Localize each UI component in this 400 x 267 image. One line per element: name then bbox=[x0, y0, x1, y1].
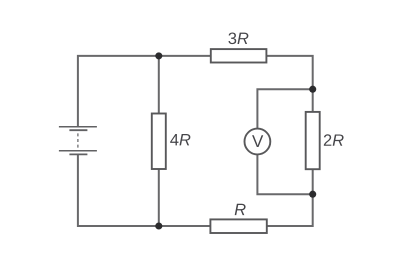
label 3R bbox=[228, 32, 248, 44]
node A (top junction) bbox=[155, 52, 162, 59]
wire voltmeter bottom: voltmeter to node D bbox=[257, 154, 312, 194]
wire middle branch upper: node A to 4R top bbox=[158, 56, 160, 114]
label 4R bbox=[170, 134, 190, 145]
resistor 2R (box) bbox=[306, 112, 320, 169]
wire left-top: battery positive up and across top rail to 3R left lead bbox=[78, 56, 211, 127]
node B (bottom junction) bbox=[155, 222, 162, 229]
wire voltmeter top: node C to voltmeter bbox=[257, 89, 312, 129]
resistor 4R (box) bbox=[152, 114, 166, 170]
voltmeter V (circle) bbox=[245, 129, 271, 155]
resistor R (box) bbox=[210, 219, 266, 233]
battery short plate 1 bbox=[69, 129, 87, 131]
wire bottom-right: R right lead to corner, up to 2R bottom bbox=[267, 169, 313, 226]
wire middle branch lower: 4R bottom to node B bbox=[158, 169, 160, 226]
battery long plate 2 bbox=[59, 150, 97, 152]
battery dashed link bbox=[77, 133, 79, 149]
battery long plate 1 bbox=[59, 126, 97, 128]
label 2R bbox=[324, 134, 344, 146]
battery B1 (multi-cell with dashed break) bbox=[59, 127, 97, 155]
wire top-right: 3R right lead to corner, down to 2R top bbox=[266, 56, 312, 112]
battery short plate 2 bbox=[69, 153, 87, 155]
label R bbox=[235, 204, 246, 215]
node C (right upper junction) bbox=[309, 86, 316, 93]
resistor 3R (box) bbox=[211, 49, 267, 62]
wire left-bottom: battery negative down and across bottom rail to R left lead bbox=[78, 154, 211, 226]
voltmeter letter V bbox=[252, 135, 263, 147]
node D (right lower junction) bbox=[309, 191, 316, 198]
